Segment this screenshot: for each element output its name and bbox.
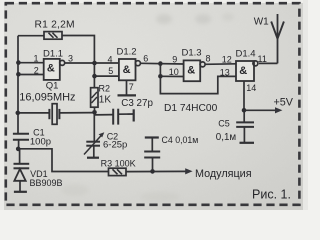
resistor R2 bbox=[93, 63, 95, 88]
resistor R1 bbox=[18, 35, 44, 37]
svg-text:11: 11 bbox=[258, 54, 267, 64]
wire: pin2 bbox=[18, 74, 44, 76]
ground bar (C2) bbox=[87, 157, 99, 159]
svg-text:+5V: +5V bbox=[274, 97, 294, 109]
svg-text:1K: 1K bbox=[99, 94, 112, 105]
svg-text:W1: W1 bbox=[254, 16, 269, 27]
svg-text:R3 100K: R3 100K bbox=[101, 158, 136, 168]
svg-text:&: & bbox=[123, 64, 131, 76]
capacitor C3 bbox=[95, 114, 114, 116]
wire: node to R3 bbox=[18, 149, 109, 172]
capacitor C2 trimmer bbox=[93, 112, 95, 141]
wire: pin8 to pin12 bbox=[205, 63, 236, 66]
antenna W1 bbox=[277, 14, 279, 63]
svg-text:Модуляция: Модуляция bbox=[195, 168, 252, 180]
wire: modulation line bbox=[126, 170, 187, 172]
dashed border frame bbox=[6, 3, 300, 205]
svg-text:Q1: Q1 bbox=[46, 81, 59, 92]
capacitor C4 bbox=[145, 136, 159, 138]
svg-text:D1.1: D1.1 bbox=[43, 49, 63, 60]
svg-text:6: 6 bbox=[143, 54, 148, 64]
gate U D1.3 bbox=[184, 60, 201, 81]
ground bar (VD1) bbox=[14, 191, 27, 193]
crystal Q1 bbox=[18, 112, 49, 114]
svg-text:D1.4: D1.4 bbox=[236, 49, 256, 60]
ground bar (C5) bbox=[240, 142, 255, 144]
wire: pin6 to pin9 bbox=[140, 62, 183, 65]
wire: left rail bbox=[17, 36, 19, 133]
svg-text:7: 7 bbox=[129, 82, 134, 92]
wire: R1 right lead bbox=[62, 36, 94, 64]
ghost smudges (scan bleed) bbox=[61, 13, 234, 202]
gate U D1.4 bbox=[236, 61, 254, 81]
svg-text:100p: 100p bbox=[30, 137, 51, 148]
svg-text:D1.2: D1.2 bbox=[117, 46, 137, 57]
wire: pin10 bbox=[160, 75, 183, 77]
capacitor C1 bbox=[13, 133, 29, 135]
svg-text:14: 14 bbox=[246, 83, 256, 93]
wire: +5V bbox=[244, 109, 277, 111]
gate U D1.1 bbox=[44, 59, 60, 80]
svg-text:0,1м: 0,1м bbox=[216, 132, 237, 143]
capacitor C5 bbox=[243, 110, 245, 122]
svg-text:6-25p: 6-25p bbox=[103, 140, 127, 151]
ground bar (C3) bbox=[133, 109, 135, 121]
wire: pin7 ground bbox=[126, 80, 128, 95]
gate U D1.2 bbox=[119, 59, 136, 80]
svg-text:3: 3 bbox=[68, 53, 73, 63]
wire: pin1 bbox=[18, 62, 44, 64]
wire: pin3 to pin4 bbox=[65, 62, 119, 64]
wire: pin5 bbox=[95, 75, 119, 77]
svg-text:&: & bbox=[187, 64, 195, 76]
svg-text:1: 1 bbox=[34, 53, 39, 63]
svg-text:D1.3: D1.3 bbox=[182, 48, 202, 59]
svg-text:&: & bbox=[47, 63, 55, 75]
svg-text:9: 9 bbox=[172, 55, 177, 65]
svg-text:R1 2,2M: R1 2,2M bbox=[35, 19, 75, 30]
wire: pin14 bbox=[243, 81, 245, 110]
resistor R3 bbox=[109, 168, 127, 175]
svg-text:4: 4 bbox=[108, 55, 113, 65]
wire: pin11 to antenna bbox=[259, 62, 278, 64]
svg-text:C4 0,01м: C4 0,01м bbox=[162, 135, 199, 145]
svg-text:BB909B: BB909B bbox=[30, 178, 63, 188]
wire: tie down bbox=[160, 63, 236, 93]
svg-text:10: 10 bbox=[169, 67, 179, 77]
svg-text:D1 74HC00: D1 74HC00 bbox=[164, 103, 218, 114]
svg-text:5: 5 bbox=[108, 66, 113, 76]
svg-text:Рис. 1.: Рис. 1. bbox=[252, 187, 291, 201]
svg-text:8: 8 bbox=[206, 54, 211, 64]
svg-text:16,095MHz: 16,095MHz bbox=[19, 91, 75, 103]
svg-text:C5: C5 bbox=[218, 119, 230, 129]
svg-text:&: & bbox=[239, 65, 247, 77]
svg-text:R2: R2 bbox=[99, 84, 111, 94]
varactor VD1 bbox=[19, 149, 21, 163]
svg-text:C3 27p: C3 27p bbox=[121, 98, 153, 109]
svg-text:2: 2 bbox=[34, 66, 39, 76]
svg-text:12: 12 bbox=[222, 54, 232, 64]
svg-text:13: 13 bbox=[220, 67, 230, 77]
